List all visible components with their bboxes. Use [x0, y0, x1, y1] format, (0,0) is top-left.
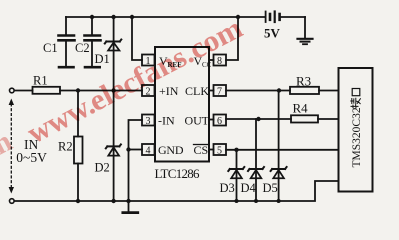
resistor R1	[33, 87, 61, 94]
svg-text:D2: D2	[95, 161, 110, 175]
node junction D4 bottom	[254, 199, 258, 203]
svg-text:5V: 5V	[264, 25, 281, 40]
IC label CLK	[185, 84, 209, 98]
svg-text:3: 3	[146, 116, 151, 127]
capacitor C1	[59, 17, 75, 67]
diode D2 (zener)	[106, 144, 121, 155]
svg-text:R4: R4	[293, 101, 309, 116]
svg-text:R1: R1	[33, 74, 48, 88]
wire pin5 CS to TMS box	[226, 149, 339, 151]
svg-text:GND: GND	[158, 143, 184, 157]
svg-text:CLK: CLK	[185, 84, 209, 98]
wire D1/D2 vertical	[113, 17, 115, 201]
svg-text:4: 4	[146, 146, 151, 157]
node junction D4-OUT	[256, 117, 260, 121]
pin 6 box	[209, 115, 226, 128]
wire R3 to TMS box	[319, 90, 339, 92]
node junction R2 bottom	[76, 199, 80, 203]
IC label -IN	[158, 114, 175, 128]
wire R4 to TMS box	[318, 118, 339, 120]
svg-text:LTC1286: LTC1286	[155, 166, 201, 181]
TMS320C32 interface label (rotated)	[351, 89, 363, 168]
node junction D5 bottom	[277, 199, 281, 203]
pin 7 box	[209, 85, 226, 98]
node junction C2-rail	[90, 15, 94, 19]
wire pin3 -IN to ground rail	[129, 120, 143, 201]
input range dashed arrow	[9, 99, 14, 194]
node junction pin1-rail	[130, 15, 134, 19]
svg-text:5: 5	[217, 146, 222, 157]
resistor R2	[74, 91, 83, 202]
wire pin7 CLK to R3	[226, 90, 290, 92]
wire R1 to pin2 (+IN node line)	[60, 90, 142, 92]
ground symbol bottom	[123, 201, 138, 213]
node junction battery-rail	[236, 15, 240, 19]
svg-text:D4: D4	[241, 181, 257, 195]
resistor R3	[290, 87, 319, 94]
IC label GND	[158, 143, 184, 157]
node junction D3 bottom	[235, 199, 239, 203]
pin 2 box	[142, 85, 155, 98]
pin 4 box	[142, 144, 155, 157]
svg-text:6: 6	[217, 116, 222, 127]
svg-text:R3: R3	[296, 74, 311, 89]
node junction D2 bottom	[111, 199, 115, 203]
node input terminal bottom	[10, 199, 15, 204]
wire bottom ground rail	[14, 181, 338, 201]
pin 5 box	[209, 144, 226, 157]
IC label +IN	[159, 84, 179, 98]
wire pin8 to rail	[226, 17, 238, 60]
node junction D5-CLK	[277, 88, 281, 92]
wire input to R1	[14, 90, 32, 92]
diode D1 (zener)	[105, 40, 122, 51]
IC label VCC	[194, 54, 212, 69]
svg-text:C2: C2	[75, 41, 90, 55]
diode D3 (zener) vertical	[228, 150, 244, 201]
pin 1 box	[142, 55, 155, 68]
capacitor C2	[85, 17, 101, 67]
node junction D1-rail	[111, 15, 115, 19]
node junction pin3/pin4 wires	[126, 147, 130, 151]
pin 3 box	[142, 115, 155, 128]
battery 5V	[266, 12, 305, 23]
svg-text:-IN: -IN	[158, 114, 175, 128]
svg-text:D3: D3	[220, 181, 235, 195]
wire pin1 to rail	[132, 17, 142, 60]
op-amp U1 LTC1286 body	[155, 47, 209, 162]
wire pin6 OUT to R4	[226, 118, 291, 120]
wire top +5V rail	[66, 16, 265, 18]
wire battery to ground	[304, 17, 306, 38]
node junction D1/D2 at +IN	[111, 88, 115, 92]
watermark www.elecfans.com	[0, 11, 248, 165]
svg-text:7: 7	[217, 87, 222, 98]
resistor R4	[291, 115, 318, 122]
svg-text:D5: D5	[263, 181, 278, 195]
svg-text:TMS320C32: TMS320C32	[351, 107, 363, 167]
node junction GND-rail	[126, 199, 130, 203]
svg-text:+IN: +IN	[159, 84, 179, 98]
node junction R2 top	[76, 88, 80, 92]
svg-text:0~5V: 0~5V	[16, 150, 47, 165]
IC label VREF	[159, 54, 182, 69]
svg-text:C1: C1	[43, 41, 58, 55]
svg-text:OUT: OUT	[185, 114, 210, 128]
ground (top right)	[298, 39, 313, 44]
node input terminal top	[10, 88, 15, 93]
wire pin4 GND to rail	[129, 149, 143, 151]
diode D5 (zener) vertical	[271, 91, 287, 202]
IC label CS (active low)	[194, 143, 209, 157]
diode D4 (zener) vertical	[248, 119, 264, 201]
TMS320C32 interface box	[339, 68, 373, 192]
svg-text:D1: D1	[95, 52, 110, 66]
IC label OUT	[185, 114, 210, 128]
node junction D3-CS	[234, 148, 238, 152]
svg-text:8: 8	[217, 56, 222, 67]
svg-text:R2: R2	[58, 140, 73, 154]
pin 8 box	[209, 55, 226, 68]
